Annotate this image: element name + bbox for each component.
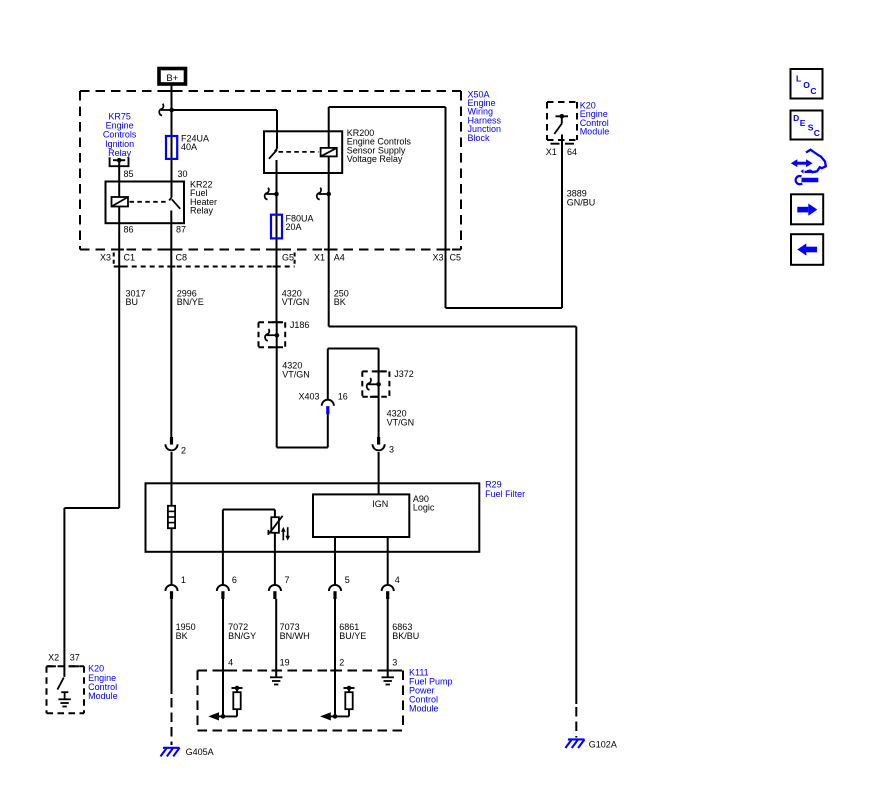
svg-text:G405A: G405A xyxy=(186,747,214,757)
svg-text:VT/GN: VT/GN xyxy=(282,297,310,307)
svg-text:BK: BK xyxy=(176,631,188,641)
svg-text:BN/GY: BN/GY xyxy=(228,631,256,641)
svg-text:J186: J186 xyxy=(290,320,310,330)
svg-text:3: 3 xyxy=(392,658,397,668)
svg-text:X2: X2 xyxy=(48,652,59,662)
svg-text:X3: X3 xyxy=(100,253,111,263)
svg-text:BN/YE: BN/YE xyxy=(177,297,204,307)
svg-text:X403: X403 xyxy=(298,392,319,402)
svg-text:4: 4 xyxy=(228,658,233,668)
svg-text:6: 6 xyxy=(232,575,237,585)
svg-text:2: 2 xyxy=(181,446,186,456)
svg-text:VT/GN: VT/GN xyxy=(282,369,310,379)
svg-text:X1: X1 xyxy=(546,147,557,157)
svg-text:Logic: Logic xyxy=(413,503,435,513)
svg-text:64: 64 xyxy=(567,147,577,157)
svg-text:Module: Module xyxy=(88,691,118,701)
svg-text:B+: B+ xyxy=(166,73,178,84)
svg-text:37: 37 xyxy=(70,652,80,662)
svg-text:5: 5 xyxy=(345,575,350,585)
svg-text:19: 19 xyxy=(280,658,290,668)
svg-text:BU/YE: BU/YE xyxy=(339,631,366,641)
svg-text:X3: X3 xyxy=(432,253,443,263)
svg-text:BN/WH: BN/WH xyxy=(280,631,310,641)
svg-text:20A: 20A xyxy=(286,222,302,232)
svg-text:C: C xyxy=(814,128,820,138)
svg-text:E: E xyxy=(800,118,806,128)
svg-text:Module: Module xyxy=(409,703,439,713)
svg-text:2: 2 xyxy=(339,658,344,668)
svg-text:IGN: IGN xyxy=(372,499,388,509)
svg-text:Block: Block xyxy=(468,133,491,143)
svg-text:X1: X1 xyxy=(314,253,325,263)
svg-text:Fuel Filter: Fuel Filter xyxy=(485,489,525,499)
svg-text:7: 7 xyxy=(285,575,290,585)
svg-text:C5: C5 xyxy=(450,253,462,263)
svg-text:BU: BU xyxy=(126,297,139,307)
svg-text:L: L xyxy=(796,73,801,83)
svg-text:BK: BK xyxy=(334,297,346,307)
svg-text:86: 86 xyxy=(124,225,134,235)
svg-text:GN/BU: GN/BU xyxy=(567,197,596,207)
svg-text:VT/GN: VT/GN xyxy=(387,417,415,427)
svg-text:40A: 40A xyxy=(181,142,197,152)
svg-text:3: 3 xyxy=(389,445,394,455)
svg-text:J372: J372 xyxy=(394,369,414,379)
svg-text:C: C xyxy=(810,86,816,96)
svg-text:BK/BU: BK/BU xyxy=(392,631,419,641)
svg-text:16: 16 xyxy=(338,392,348,402)
svg-text:Module: Module xyxy=(580,127,610,137)
svg-text:A4: A4 xyxy=(334,253,345,263)
svg-text:85: 85 xyxy=(124,169,134,179)
svg-text:87: 87 xyxy=(176,225,186,235)
svg-text:1: 1 xyxy=(181,575,186,585)
svg-text:C1: C1 xyxy=(124,253,136,263)
svg-text:Voltage Relay: Voltage Relay xyxy=(347,154,403,164)
svg-text:4: 4 xyxy=(395,575,400,585)
svg-text:G5: G5 xyxy=(282,253,294,263)
svg-text:Relay: Relay xyxy=(190,206,214,216)
svg-text:S: S xyxy=(808,123,814,133)
svg-text:O: O xyxy=(803,80,810,90)
svg-text:Relay: Relay xyxy=(108,148,132,158)
svg-text:D: D xyxy=(793,113,799,123)
svg-text:30: 30 xyxy=(178,169,188,179)
svg-text:G102A: G102A xyxy=(589,739,617,749)
svg-text:C8: C8 xyxy=(176,253,188,263)
